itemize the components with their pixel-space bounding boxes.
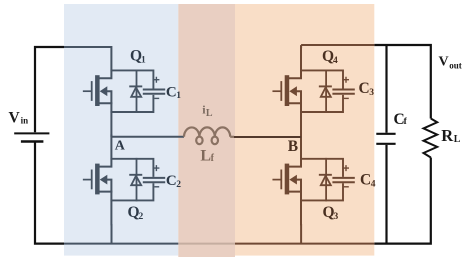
svg-text:B: B — [288, 138, 298, 155]
svg-text:R: R — [441, 126, 454, 145]
svg-text:out: out — [449, 60, 462, 70]
svg-text:L: L — [454, 134, 461, 145]
svg-text:C: C — [359, 80, 370, 97]
svg-text:f: f — [404, 117, 408, 127]
svg-text:A: A — [115, 139, 126, 154]
svg-text:in: in — [21, 115, 29, 125]
svg-text:1: 1 — [141, 55, 146, 65]
svg-text:C: C — [166, 173, 177, 189]
svg-text:L: L — [206, 108, 213, 119]
svg-text:1: 1 — [176, 91, 181, 101]
svg-text:2: 2 — [176, 180, 181, 190]
svg-text:4: 4 — [333, 56, 338, 66]
svg-text:3: 3 — [334, 212, 339, 222]
svg-text:C: C — [166, 84, 177, 100]
svg-text:2: 2 — [139, 212, 144, 222]
svg-text:V: V — [9, 109, 21, 126]
svg-text:V: V — [439, 54, 449, 69]
svg-text:L: L — [200, 147, 211, 164]
svg-text:4: 4 — [371, 180, 376, 190]
svg-text:3: 3 — [369, 88, 374, 98]
svg-text:C: C — [360, 172, 371, 189]
